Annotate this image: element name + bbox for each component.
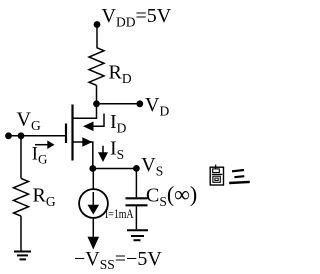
current arrow ID <box>83 114 104 132</box>
resistor RG <box>14 178 29 216</box>
wire RG to ground <box>20 216 22 250</box>
wire VS node to CS <box>135 169 137 198</box>
svg-text:−VSS=−5V: −VSS=−5V <box>74 248 162 272</box>
node VD terminal <box>136 100 143 107</box>
transistor M1 source arrowhead <box>82 137 92 147</box>
transistor M1 gate bar <box>65 124 67 144</box>
wire source lead with arrow <box>74 142 93 169</box>
svg-text:VDD=5V: VDD=5V <box>102 5 172 30</box>
ground G2 <box>127 230 148 240</box>
transistor M1 channel bar <box>71 105 73 161</box>
svg-text:ID: ID <box>110 111 127 136</box>
node drain junction <box>93 100 100 107</box>
node VS terminal <box>133 165 140 172</box>
arrowhead to -VSS rail <box>88 237 100 250</box>
node source junction <box>89 165 96 172</box>
svg-text:I=1mA: I=1mA <box>105 206 134 221</box>
svg-text:RG: RG <box>33 185 56 210</box>
label figure caption 圖三 <box>210 165 250 185</box>
svg-text:CS(∞): CS(∞) <box>146 182 197 210</box>
svg-text:IG: IG <box>32 145 48 167</box>
wire gate node to RG <box>20 136 22 179</box>
wire drain lead <box>74 104 97 118</box>
svg-text:RD: RD <box>109 62 132 87</box>
wire source node to VS terminal <box>93 168 137 170</box>
node VDD terminal <box>94 21 101 28</box>
resistor RD <box>89 48 104 86</box>
wire drain node to VD terminal <box>97 103 140 105</box>
wire VDD to RD <box>96 25 98 48</box>
node VG terminal <box>5 132 12 139</box>
svg-text:IS: IS <box>110 138 124 163</box>
svg-text:VD: VD <box>145 94 169 119</box>
wire gate lead <box>9 135 67 137</box>
wire current source to -VSS <box>92 218 94 239</box>
node gate junction <box>18 132 25 139</box>
svg-text:VG: VG <box>17 108 41 133</box>
current arrow IG <box>35 140 55 149</box>
current source I1 arrow <box>88 192 100 215</box>
capacitor CS <box>126 198 148 205</box>
wire RD to drain node <box>96 85 98 104</box>
wire source node to current source <box>92 169 94 189</box>
ground G1 <box>14 252 31 260</box>
current arrow IS <box>98 146 108 162</box>
svg-text:VS: VS <box>141 154 163 179</box>
current source I1 circle <box>79 189 108 218</box>
wire CS to ground <box>135 205 137 229</box>
